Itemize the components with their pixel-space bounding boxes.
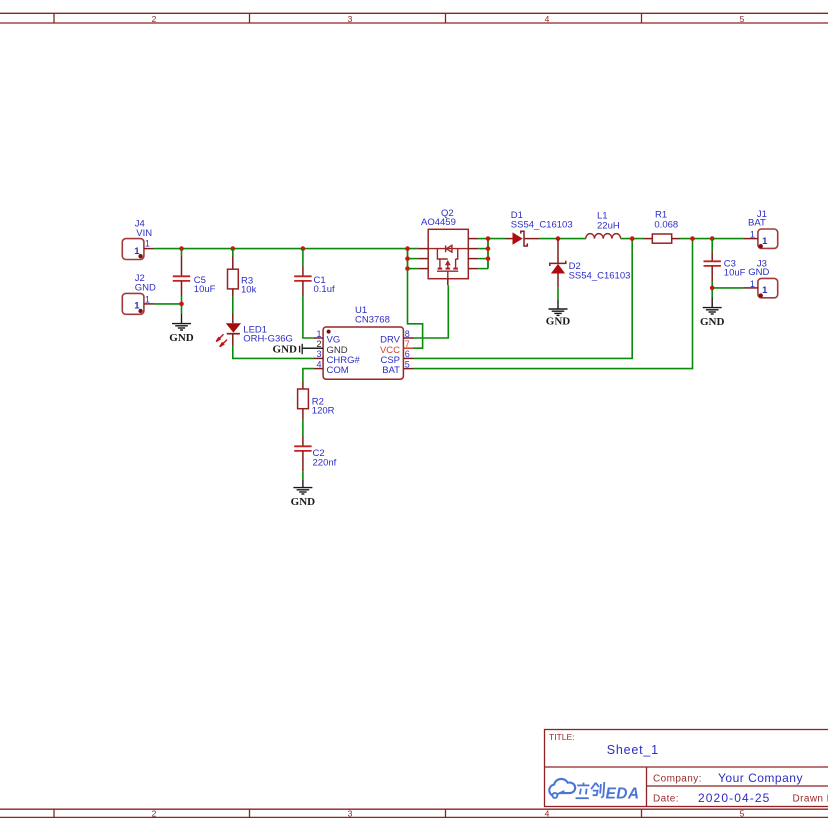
Q2 pins left: [418, 248, 428, 250]
svg-text:1: 1: [316, 329, 321, 339]
node Q2 S3: [405, 266, 410, 271]
svg-text:2: 2: [316, 339, 321, 349]
node Q2 drain top: [486, 236, 491, 241]
svg-text:1: 1: [762, 236, 768, 247]
diode D2 SS54: [550, 239, 631, 288]
logo glyph li: [576, 783, 590, 799]
node C3 junction: [710, 236, 715, 241]
wire C5 to ground: [181, 296, 183, 304]
svg-text:Drawn By:: Drawn By:: [793, 793, 828, 804]
wire Q2 drain bus: [478, 239, 505, 269]
svg-text:1: 1: [762, 285, 768, 296]
svg-text:GND: GND: [291, 496, 316, 508]
svg-text:Date:: Date:: [653, 793, 679, 804]
svg-text:Company:: Company:: [653, 773, 702, 784]
wire BAT run: [414, 239, 693, 369]
wire L1 to R1: [621, 238, 644, 240]
svg-text:220nf: 220nf: [313, 457, 337, 468]
svg-text:Your Company: Your Company: [718, 771, 803, 785]
node VIN junction Q2: [405, 246, 410, 251]
Q2 gate stub: [447, 279, 449, 286]
inductor L1: [586, 210, 621, 238]
title block: [545, 730, 828, 807]
U1 pin 5 BAT: [403, 368, 413, 370]
svg-text:10uF: 10uF: [724, 268, 746, 279]
svg-text:5: 5: [740, 808, 745, 818]
wire C1 to VG: [303, 296, 314, 338]
wire R1 to J1: [680, 238, 744, 240]
wire VIN rail: [154, 248, 418, 250]
Q2 pins right: [468, 238, 478, 240]
svg-text:7: 7: [405, 339, 410, 349]
wire R3 to LED1: [232, 297, 234, 314]
svg-text:GND: GND: [273, 344, 298, 356]
svg-text:4: 4: [545, 808, 550, 818]
node VIN junction C5: [179, 246, 184, 251]
svg-text:3: 3: [316, 349, 321, 359]
capacitor C1: [294, 249, 335, 296]
svg-text:COM: COM: [327, 365, 349, 376]
ground GND under C5: [172, 314, 191, 330]
capacitor C2: [294, 436, 336, 471]
node Q2 S2: [405, 256, 410, 261]
svg-text:GND: GND: [135, 283, 156, 294]
U1 pin 6 CSP: [403, 357, 413, 359]
svg-text:0.1uf: 0.1uf: [314, 284, 335, 295]
svg-text:AO4459: AO4459: [421, 217, 456, 228]
svg-text:SS54_C16103: SS54_C16103: [511, 219, 573, 230]
wire J2 to C5: [154, 303, 182, 305]
svg-text:VIN: VIN: [136, 228, 152, 239]
svg-text:10k: 10k: [241, 284, 257, 295]
Q2 mosfet symbol: [428, 245, 468, 278]
wire Q2 source bus: [408, 249, 419, 269]
U1 pin 4 COM: [313, 368, 323, 370]
wire D2 to ground: [557, 288, 559, 300]
node Q2 drain 2: [486, 246, 491, 251]
IC U1 CN3768: [302, 305, 413, 379]
U1 pin 2 GND: [302, 347, 323, 349]
ground GND under C3: [703, 298, 722, 315]
U1 pin 8 DRV: [403, 337, 413, 339]
svg-text:0.068: 0.068: [654, 219, 678, 230]
svg-text:GND: GND: [748, 267, 769, 278]
wire COM to R2: [303, 369, 314, 381]
ground GND under C2: [293, 479, 312, 494]
node VIN junction R3: [231, 246, 236, 251]
svg-text:EDA: EDA: [606, 785, 640, 802]
svg-text:4: 4: [316, 359, 321, 369]
connector J3: [744, 258, 778, 297]
node BAT junction: [690, 236, 695, 241]
connector J2: [122, 273, 156, 314]
svg-text:CN3768: CN3768: [355, 315, 390, 326]
LED LED1: [216, 313, 293, 347]
svg-text:1: 1: [145, 238, 150, 248]
sheet frame bottom: [0, 809, 828, 817]
U1 pin 7 VCC: [403, 347, 413, 349]
node D1/D2 junction: [556, 236, 561, 241]
wire D1 to L1: [539, 238, 586, 240]
svg-text:120R: 120R: [312, 405, 335, 416]
wire R2 to C2: [302, 419, 304, 436]
svg-text:5: 5: [405, 359, 410, 369]
logo EasyEDA cloud: [549, 779, 639, 802]
wire C2 to ground: [302, 471, 304, 479]
capacitor C3: [704, 239, 746, 281]
svg-text:2: 2: [152, 14, 157, 24]
wire LED1 to CHRG#: [233, 345, 314, 358]
svg-text:GND: GND: [700, 316, 725, 328]
svg-text:3: 3: [348, 808, 353, 818]
wire CSP run: [414, 239, 633, 359]
svg-text:6: 6: [405, 349, 410, 359]
svg-text:BAT: BAT: [382, 365, 400, 376]
net flag GND at U1 pin2: [273, 344, 303, 356]
wire C3 to J3: [712, 281, 744, 298]
node Q2 drain 3: [486, 256, 491, 261]
svg-text:10uF: 10uF: [194, 284, 216, 295]
svg-text:GND: GND: [546, 316, 571, 328]
wire DRV to Q2 gate: [414, 285, 449, 338]
svg-text:22uH: 22uH: [597, 220, 620, 231]
ground GND under D2: [549, 299, 568, 315]
svg-text:GND: GND: [169, 332, 194, 344]
svg-text:2020-04-25: 2020-04-25: [698, 791, 770, 805]
svg-text:SS54_C16103: SS54_C16103: [569, 271, 631, 282]
svg-text:1: 1: [145, 294, 150, 304]
node L1/CSP junction: [630, 236, 635, 241]
connector J4: [122, 218, 154, 259]
svg-text:3: 3: [348, 14, 353, 24]
logo glyph chuang: [591, 782, 604, 798]
sheet frame top: [0, 13, 828, 23]
svg-text:2: 2: [152, 808, 157, 818]
wire VIN to VCC: [408, 269, 423, 349]
svg-text:8: 8: [405, 329, 410, 339]
resistor R3: [228, 249, 257, 297]
svg-text:5: 5: [740, 14, 745, 24]
svg-text:4: 4: [545, 14, 550, 24]
svg-text:TITLE:: TITLE:: [549, 732, 575, 742]
capacitor C5: [173, 249, 216, 296]
resistor R2: [298, 381, 335, 419]
node VIN junction C1: [301, 246, 306, 251]
svg-text:BAT: BAT: [748, 218, 766, 229]
node C3/J3 junction: [710, 286, 715, 291]
LED1 emission arrows: [216, 334, 227, 347]
node C5/J2 junction: [179, 302, 184, 307]
svg-text:Sheet_1: Sheet_1: [607, 743, 659, 757]
U1 pin 1 VG: [313, 337, 323, 339]
diode D1 SS54: [505, 210, 573, 246]
connector J1: [744, 209, 778, 248]
U1 pin 3 CHRG#: [313, 357, 323, 359]
resistor R1: [644, 210, 680, 244]
transistor Q2 AO4459: [418, 208, 478, 285]
